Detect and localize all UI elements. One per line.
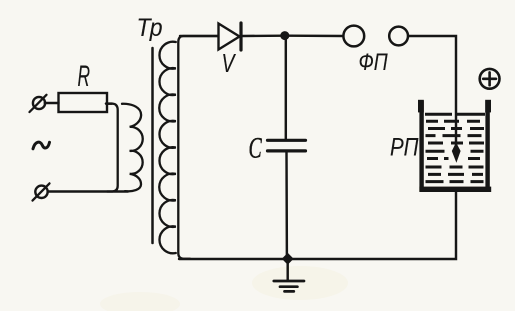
svg-text:V: V: [222, 48, 237, 77]
terminal X2 slash: [33, 183, 50, 200]
transformer Tr primary winding humps: [122, 104, 143, 192]
ground bar 2: [280, 285, 297, 288]
wire diode to node A: [243, 34, 285, 37]
diode V cathode bar: [239, 23, 242, 50]
wire capacitor to node B: [285, 153, 288, 260]
wire secondary bottom to node B: [179, 258, 287, 260]
node B junction diamond: [282, 253, 294, 265]
wire node A to contact FP: [289, 34, 343, 37]
wire secondary top to diode: [180, 35, 218, 37]
bath RP left wall cap: [418, 100, 424, 113]
capacitor C top plate: [268, 139, 306, 142]
contact FP right circle: [389, 27, 408, 46]
terminal X2 (bottom input): [35, 186, 47, 198]
ground stub: [286, 261, 288, 281]
resistor R: [59, 93, 108, 112]
ground bar 3: [285, 290, 294, 293]
svg-text:ФП: ФП: [359, 48, 388, 76]
wire node A to capacitor: [285, 36, 287, 139]
node A junction dot: [280, 31, 289, 40]
svg-text:Тр: Тр: [137, 14, 163, 42]
wire X1 to R: [45, 102, 59, 104]
plus sign: [483, 78, 496, 81]
transformer Tr secondary winding humps: [159, 42, 176, 254]
plus polarity circle: [480, 69, 500, 89]
bath RP bottom: [419, 187, 491, 192]
transformer Tr core: [151, 48, 154, 243]
svg-text:РП: РП: [390, 133, 419, 161]
svg-text:R: R: [78, 60, 91, 93]
wire R to primary winding: [106, 102, 112, 104]
bath RP right wall: [485, 101, 489, 192]
wire X2 to primary winding: [48, 190, 128, 192]
capacitor C bottom plate: [268, 149, 306, 152]
wire contact FP to bath: [408, 36, 456, 146]
ground bar 1: [274, 280, 304, 283]
transformer Tr primary winding envelope: [106, 104, 118, 192]
AC source symbol ~: [33, 142, 50, 149]
transformer Tr secondary winding envelope: [178, 36, 218, 259]
contact FP left circle: [343, 26, 364, 47]
wire bath bottom to node B: [287, 192, 456, 259]
diode V triangle: [219, 24, 240, 50]
electrode arrow in bath: [452, 143, 461, 163]
electrode arrow backing: [449, 146, 464, 164]
bath RP left wall: [419, 101, 423, 192]
svg-text:C: C: [249, 132, 263, 165]
bath RP right wall cap: [485, 100, 491, 113]
bath liquid hatching: [425, 114, 485, 181]
terminal X1 (top input): [33, 97, 45, 109]
terminal X1 slash: [30, 95, 47, 112]
